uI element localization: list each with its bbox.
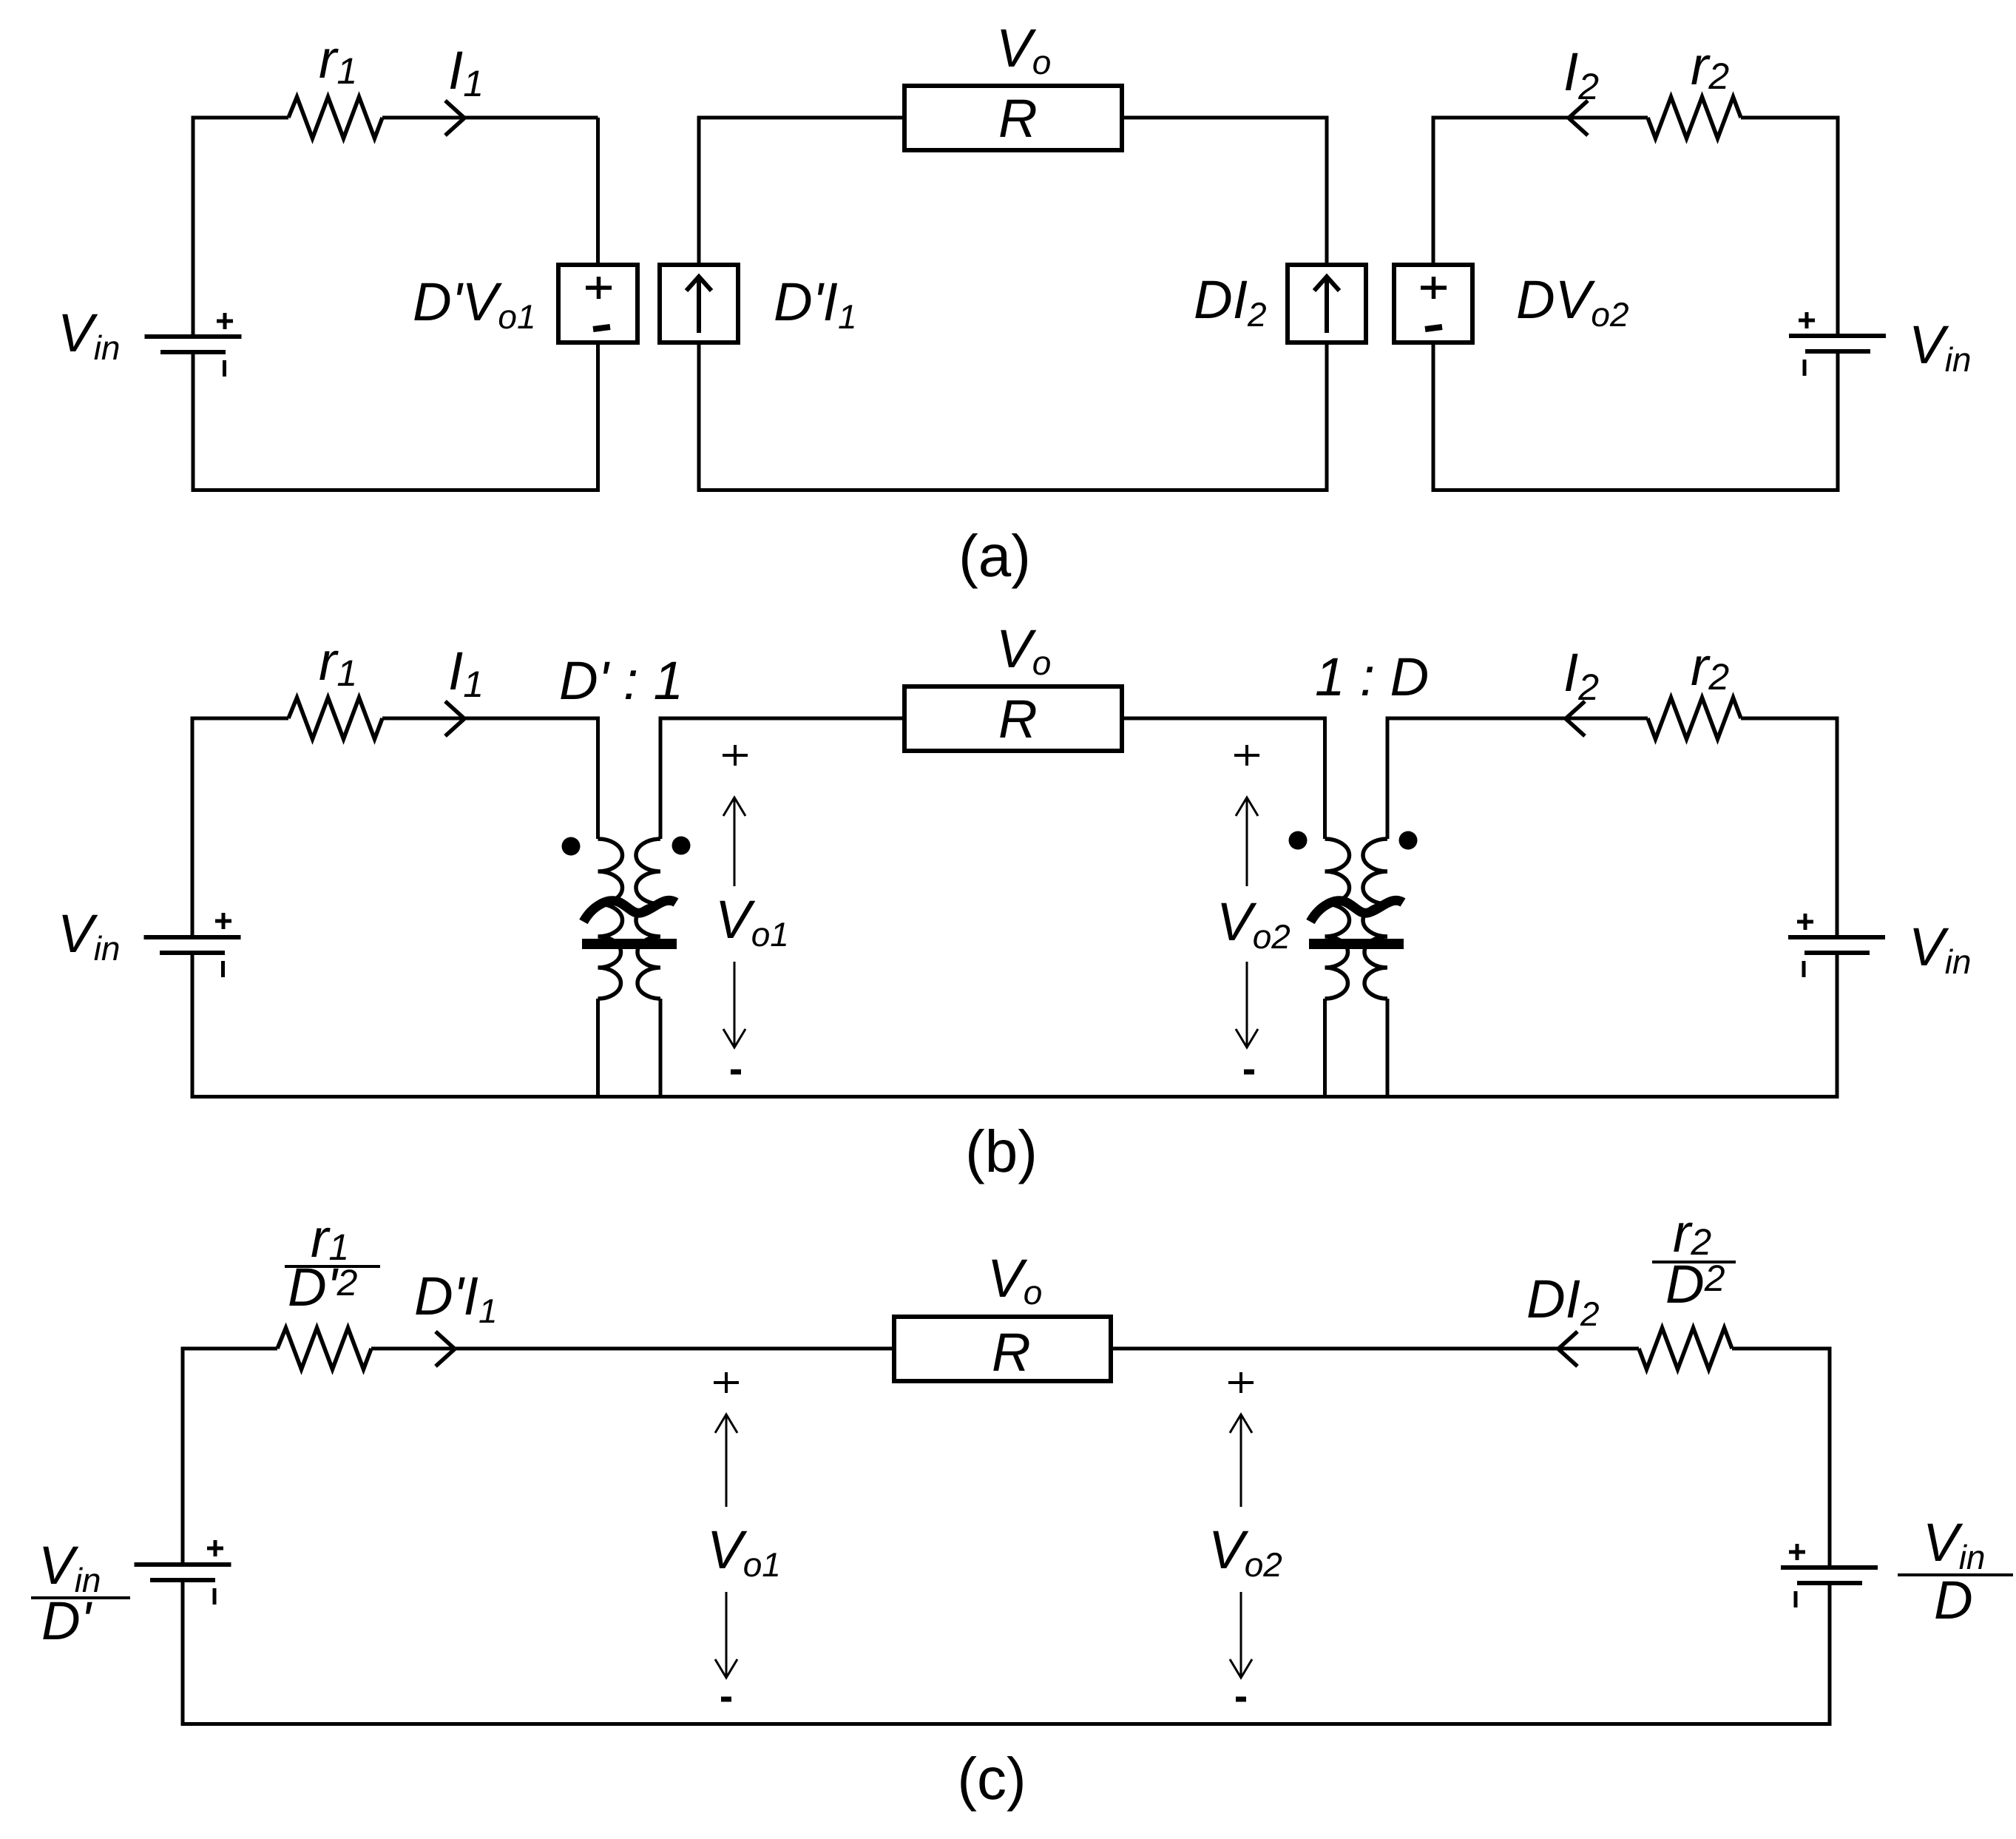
wire: (b) right vertical top bbox=[1836, 717, 1839, 936]
battery Vin/D (c) right: long plate bbox=[1781, 1565, 1878, 1570]
wire: (c) top right segment bbox=[1732, 1347, 1830, 1351]
wire: loop2 top right segment (a) bbox=[1122, 116, 1329, 120]
battery Vin (a) right: plus mark bbox=[1799, 312, 1815, 328]
transformer T2 primary winding bbox=[1325, 839, 1350, 999]
wire: loop3 bottom (a) bbox=[1432, 488, 1840, 492]
wire: loop1 right vertical bottom (a) bbox=[596, 343, 600, 492]
battery Vin (b) left: long plate bbox=[144, 935, 241, 939]
transformer T1 core bar bbox=[582, 939, 677, 949]
voltage annotation Vo2 (c): up arrow bbox=[1230, 1414, 1252, 1507]
resistor r1 (a) zigzag bbox=[288, 97, 382, 138]
transformer T2 secondary terminal wire (top) bbox=[1386, 717, 1390, 840]
label r2/D2 (c): fraction bar bbox=[1652, 1261, 1736, 1263]
wire: loop1 left vertical (a) bbox=[192, 118, 195, 334]
voltage annotation Vo2 (b): minus bbox=[1244, 1070, 1254, 1075]
resistor Vo/R (b): box bbox=[904, 686, 1122, 751]
voltage annotation Vo2 (b): up arrow bbox=[1236, 797, 1258, 886]
battery Vin (a) left: long plate bbox=[145, 334, 242, 339]
wire: loop2 right vertical bottom (a) bbox=[1325, 343, 1329, 492]
svg-text:(a): (a) bbox=[958, 523, 1031, 589]
wire: (b) top right segment bbox=[1741, 717, 1837, 721]
wire: (c) top segment resistor to R box bbox=[371, 1347, 894, 1351]
wire: (b) top segment to transformer T1 bbox=[382, 717, 598, 721]
wire: loop3 top right segment (a) bbox=[1741, 116, 1838, 120]
label Vin/D' (c) left: fraction bar bbox=[31, 1596, 130, 1599]
wire: (c) bottom bus bbox=[181, 1722, 1832, 1726]
resistor r2 (b) zigzag bbox=[1648, 698, 1741, 739]
voltage annotation Vo1 (b): down arrow bbox=[723, 962, 745, 1047]
voltage annotation Vo2 (b): plus bbox=[1234, 745, 1259, 766]
battery Vin (a) left: short plate bbox=[160, 350, 226, 354]
battery Vin (a) right: long plate bbox=[1789, 334, 1886, 338]
current arrow I2 (b) bbox=[1566, 701, 1585, 736]
battery Vin/D' (c) left: short plate bbox=[150, 1578, 215, 1582]
label r1/D'2 (c): fraction bar bbox=[285, 1265, 380, 1268]
wire: (b) left vertical bottom bbox=[191, 954, 195, 1099]
wire: loop1 right vertical top (a) bbox=[596, 118, 600, 265]
resistor r2 (a) zigzag bbox=[1648, 97, 1741, 138]
current source DI2 (a): arrow bbox=[1314, 277, 1339, 333]
wire: (c) right vertical bottom bbox=[1828, 1585, 1832, 1726]
wire: loop2 left vertical top (a) bbox=[697, 118, 701, 265]
dependent source D'Vo1 (a): minus mark bbox=[593, 327, 610, 329]
wire: loop1 top right segment (a) bbox=[382, 116, 598, 120]
current source D'I1 (a): arrow bbox=[686, 277, 711, 333]
wire: (c) right vertical top bbox=[1828, 1347, 1832, 1566]
voltage annotation Vo1 (c): minus bbox=[721, 1697, 731, 1702]
svg-text:(c): (c) bbox=[957, 1746, 1026, 1812]
dependent source D'Vo1 (a): plus mark bbox=[586, 277, 612, 299]
label Vin/D (c) right: fraction bar bbox=[1898, 1573, 2013, 1576]
resistor r1 (b) zigzag bbox=[288, 698, 382, 739]
transformer T2 dot (secondary) bbox=[1399, 831, 1418, 850]
wire: loop2 left vertical bottom (a) bbox=[697, 343, 701, 492]
current arrow I1 (b) bbox=[445, 701, 464, 736]
resistor r2/D2 (c) zigzag bbox=[1639, 1328, 1732, 1369]
dependent source DVo2 (a): plus mark bbox=[1421, 277, 1447, 299]
battery Vin/D (c) right: plus mark bbox=[1789, 1544, 1805, 1560]
current source DI2 (a): box bbox=[1288, 265, 1366, 343]
battery Vin/D (c) right: short plate bbox=[1797, 1581, 1862, 1585]
wire: loop1 top left segment (a) bbox=[192, 116, 289, 120]
wire: loop2 bottom (a) bbox=[697, 488, 1329, 492]
wire: loop2 top left segment (a) bbox=[697, 116, 905, 120]
wire: (b) top segment transformer T1 to R bbox=[660, 717, 904, 721]
battery Vin (a) left: plus mark bbox=[217, 313, 233, 329]
resistor Vo/R (a): box bbox=[904, 86, 1122, 150]
transformer T1 dot (secondary) bbox=[672, 837, 691, 855]
battery Vin/D' (c) left: minus tick bbox=[213, 1588, 217, 1605]
battery Vin/D' (c) left: long plate bbox=[135, 1562, 231, 1567]
voltage annotation Vo1 (b): minus bbox=[731, 1070, 741, 1075]
transformer T1 core wave bbox=[584, 900, 676, 922]
voltage annotation Vo1 (c): plus bbox=[714, 1372, 739, 1393]
voltage annotation Vo1 (b): plus bbox=[723, 745, 748, 766]
wire: (b) bottom bus bbox=[191, 1095, 1839, 1099]
wire: loop2 right vertical top (a) bbox=[1325, 118, 1329, 265]
voltage annotation Vo2 (c): plus bbox=[1228, 1372, 1254, 1393]
battery Vin/D' (c) left: plus mark bbox=[207, 1540, 223, 1556]
transformer T1 primary terminal wire (top) bbox=[596, 717, 600, 840]
wire: (c) left vertical bottom bbox=[181, 1582, 185, 1726]
current arrow D'I1 (c) bbox=[436, 1332, 455, 1366]
wire: loop3 left vertical bottom (a) bbox=[1432, 343, 1435, 492]
battery Vin/D (c) right: minus tick bbox=[1794, 1591, 1798, 1607]
voltage annotation Vo1 (c): down arrow bbox=[715, 1592, 737, 1678]
current arrow I1 (a) bbox=[445, 101, 464, 135]
current arrow DI2 (c) bbox=[1558, 1332, 1577, 1366]
svg-text:R: R bbox=[998, 689, 1038, 749]
wire: (b) top segment transformer T2 to r2 bbox=[1387, 717, 1648, 721]
transformer T2 secondary winding bbox=[1363, 839, 1387, 999]
voltage annotation Vo1 (c): up arrow bbox=[715, 1414, 737, 1507]
resistor Vo/R (c): box bbox=[894, 1317, 1111, 1381]
wire: (b) top segment R to transformer T2 bbox=[1122, 717, 1325, 721]
wire: (b) left vertical top bbox=[191, 718, 195, 935]
transformer T2 core wave bbox=[1310, 900, 1403, 922]
wire: loop3 right vertical (a) bbox=[1836, 116, 1840, 334]
svg-text:R: R bbox=[998, 89, 1038, 149]
transformer T2 primary terminal wire (top) bbox=[1323, 717, 1327, 840]
transformer T1 primary terminal wire (bottom) bbox=[596, 999, 600, 1099]
battery Vin (a) right: short plate bbox=[1805, 349, 1870, 354]
svg-text:1 : D: 1 : D bbox=[1315, 647, 1429, 707]
battery Vin (b) right: minus tick bbox=[1802, 961, 1806, 977]
svg-text:D': D' bbox=[41, 1591, 92, 1651]
transformer T1 secondary winding bbox=[636, 839, 660, 999]
svg-text:D: D bbox=[1934, 1570, 1973, 1630]
wire: loop1 bottom (a) bbox=[192, 488, 601, 492]
transformer T1 primary winding bbox=[598, 839, 623, 999]
wire: loop3 left vertical top (a) bbox=[1432, 118, 1435, 265]
wire: (b) top left segment bbox=[191, 717, 289, 721]
wire: (b) right vertical bottom bbox=[1836, 954, 1839, 1099]
battery Vin (b) right: short plate bbox=[1804, 951, 1870, 955]
battery Vin (b) left: short plate bbox=[160, 951, 225, 955]
transformer T2 core bar bbox=[1309, 939, 1404, 949]
wire: (c) top left segment bbox=[181, 1347, 278, 1351]
voltage annotation Vo2 (b): down arrow bbox=[1236, 962, 1258, 1047]
transformer T1 secondary terminal wire (bottom) bbox=[659, 999, 663, 1099]
wire: (c) top segment R box to r2 bbox=[1111, 1347, 1639, 1351]
dependent source DVo2 (a): box bbox=[1394, 265, 1472, 343]
battery Vin (b) left: plus mark bbox=[215, 913, 231, 929]
dependent source DVo2 (a): minus mark bbox=[1425, 327, 1442, 329]
battery Vin (b) left: minus tick bbox=[221, 961, 225, 977]
resistor r1/D'2 (c) zigzag bbox=[277, 1328, 371, 1369]
transformer T2 dot (primary) bbox=[1289, 831, 1308, 850]
dependent source D'Vo1 (a): box bbox=[558, 265, 637, 343]
voltage annotation Vo1 (b): up arrow bbox=[723, 797, 745, 886]
svg-text:(b): (b) bbox=[965, 1118, 1038, 1184]
transformer T2 secondary terminal wire (bottom) bbox=[1386, 999, 1390, 1099]
battery Vin (b) right: plus mark bbox=[1797, 914, 1813, 930]
transformer T1 secondary terminal wire (top) bbox=[659, 717, 663, 840]
wire: loop3 right vertical bottom (a) bbox=[1836, 353, 1840, 492]
current source D'I1 (a): box bbox=[660, 265, 738, 343]
transformer T1 dot (primary) bbox=[562, 837, 581, 856]
battery Vin (b) right: long plate bbox=[1788, 935, 1885, 939]
battery Vin (a) left: minus tick bbox=[223, 360, 226, 377]
battery Vin (a) right: minus tick bbox=[1803, 360, 1807, 376]
wire: (c) left vertical top bbox=[181, 1349, 185, 1562]
voltage annotation Vo2 (c): down arrow bbox=[1230, 1592, 1252, 1678]
current arrow I2 (a) bbox=[1569, 101, 1588, 135]
transformer T2 primary terminal wire (bottom) bbox=[1323, 999, 1327, 1099]
wire: loop3 top left segment (a) bbox=[1432, 116, 1648, 120]
svg-text:R: R bbox=[992, 1323, 1031, 1383]
svg-text:D' : 1: D' : 1 bbox=[559, 651, 683, 711]
voltage annotation Vo2 (c): minus bbox=[1236, 1697, 1246, 1702]
wire: loop1 left vertical below battery (a) bbox=[192, 354, 195, 492]
